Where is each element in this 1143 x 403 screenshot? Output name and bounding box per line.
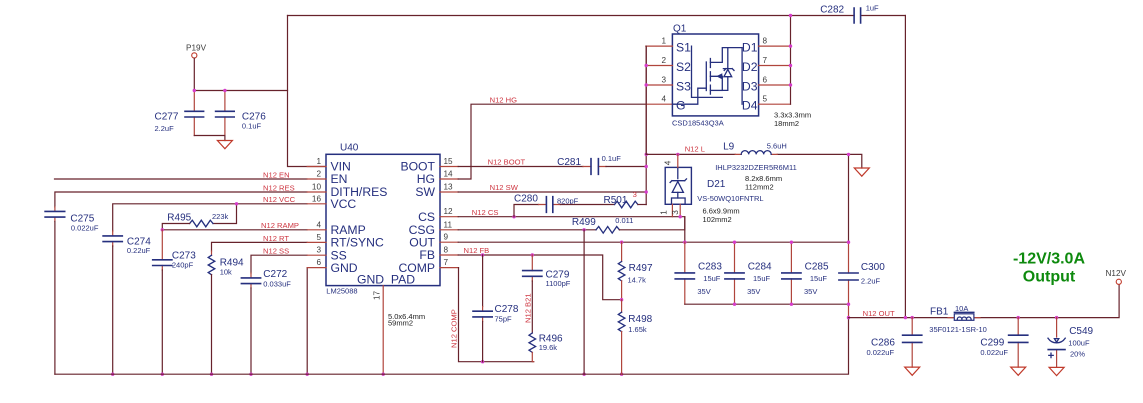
junction N12_L D21 — [676, 153, 679, 156]
svg-text:0.011: 0.011 — [615, 216, 633, 225]
Q1 pin 3 S3 — [646, 76, 691, 94]
svg-text:R498: R498 — [628, 314, 652, 325]
resistor R498 — [618, 300, 652, 375]
transistor Q1 body CSD18543Q3A — [672, 24, 759, 128]
capacitor C300 — [839, 154, 885, 317]
svg-text:C285: C285 — [805, 262, 829, 273]
svg-text:GND: GND — [331, 261, 358, 275]
svg-text:0.033uF: 0.033uF — [263, 279, 291, 288]
svg-text:5: 5 — [316, 233, 321, 242]
junction D1 — [789, 44, 792, 47]
svg-text:U40: U40 — [340, 143, 359, 154]
capacitor C280 — [514, 194, 579, 217]
svg-text:D3: D3 — [742, 79, 758, 93]
label output text — [1013, 251, 1085, 286]
D21 size note — [703, 207, 740, 225]
svg-text:CSD18543Q3A: CSD18543Q3A — [672, 119, 724, 128]
junction caps bottom C285 — [790, 303, 793, 306]
svg-text:C286: C286 — [871, 338, 895, 349]
svg-text:D1: D1 — [742, 41, 758, 55]
svg-text:15: 15 — [444, 157, 454, 166]
svg-text:1100pF: 1100pF — [546, 279, 571, 288]
svg-text:8: 8 — [763, 37, 768, 46]
U40 pin 13 SW — [415, 183, 458, 200]
svg-text:S3: S3 — [676, 79, 691, 93]
capacitor C281 — [557, 154, 646, 174]
junction CS tap — [512, 215, 515, 218]
U40 pin 15 BOOT — [400, 157, 458, 174]
resistor R499 — [572, 216, 685, 233]
svg-text:C278: C278 — [495, 304, 519, 315]
svg-text:C281: C281 — [557, 157, 581, 168]
junction D3 — [789, 83, 792, 86]
op-amp U40 LM25088 controller body — [326, 143, 440, 296]
junction P19V row — [193, 89, 196, 92]
Q1 pin 7 D2 — [742, 56, 791, 74]
svg-text:20%: 20% — [1070, 350, 1085, 359]
svg-text:GND_PAD: GND_PAD — [357, 273, 415, 287]
svg-text:N12 CS: N12 CS — [472, 208, 499, 217]
svg-text:0.022uF: 0.022uF — [980, 348, 1008, 357]
svg-text:3: 3 — [633, 190, 637, 199]
junction D21 anode CS — [679, 215, 682, 218]
junction bottom rail taps — [111, 373, 623, 376]
U40 pin 7 COMP — [398, 258, 458, 275]
wire cap bottoms — [194, 136, 225, 141]
ground C286 — [905, 367, 920, 375]
svg-text:4: 4 — [661, 95, 666, 104]
wire N12_COMP path — [459, 268, 534, 362]
D21 pin 4 stub — [664, 154, 678, 167]
svg-text:N12 COMP: N12 COMP — [449, 309, 458, 348]
svg-text:223k: 223k — [212, 212, 229, 221]
wire N12_SS row — [251, 255, 307, 273]
junction drain bus top rail — [789, 14, 792, 17]
svg-text:N12 BOOT: N12 BOOT — [488, 158, 526, 167]
svg-text:3: 3 — [316, 246, 321, 255]
svg-text:G: G — [676, 99, 685, 113]
svg-text:D21: D21 — [707, 179, 726, 190]
svg-text:L9: L9 — [723, 141, 735, 152]
svg-text:C300: C300 — [861, 262, 885, 273]
svg-text:N12 B21: N12 B21 — [524, 293, 533, 323]
U40 pin 14 HG — [417, 170, 458, 187]
U40 pin 11 CSG — [409, 220, 459, 237]
svg-text:-12V/3.0A: -12V/3.0A — [1013, 251, 1085, 268]
svg-text:9: 9 — [444, 233, 449, 242]
svg-text:1.65k: 1.65k — [628, 325, 647, 334]
svg-text:N12 RAMP: N12 RAMP — [261, 221, 299, 230]
wire P19V stub — [193, 58, 195, 90]
svg-text:102mm2: 102mm2 — [703, 215, 732, 224]
svg-text:5.6uH: 5.6uH — [767, 142, 787, 151]
svg-text:N12V: N12V — [1106, 269, 1127, 278]
svg-text:S2: S2 — [676, 60, 691, 74]
U40 pin 16 VCC — [307, 194, 356, 211]
svg-text:15uF: 15uF — [753, 274, 771, 283]
capacitor C276 — [216, 91, 267, 136]
svg-text:5: 5 — [763, 95, 768, 104]
svg-text:1: 1 — [661, 37, 666, 46]
svg-text:IHLP3232DZER5R6M11: IHLP3232DZER5R6M11 — [715, 163, 797, 172]
svg-text:0.022uF: 0.022uF — [71, 224, 99, 233]
D21 pin 1 stub — [660, 204, 673, 216]
junction C284 top — [733, 241, 736, 244]
Q1 size note — [774, 111, 811, 129]
Q1 pin 8 D1 — [742, 37, 791, 55]
Q1 internal MOSFET symbol — [672, 46, 742, 104]
svg-text:N12 OUT: N12 OUT — [863, 309, 895, 318]
svg-text:7: 7 — [763, 56, 768, 65]
svg-text:VCC: VCC — [331, 197, 357, 211]
capacitor C283 — [675, 242, 722, 304]
svg-text:N12 SW: N12 SW — [490, 183, 519, 192]
svg-text:N12 EN: N12 EN — [263, 170, 290, 179]
svg-text:FB1: FB1 — [930, 306, 949, 317]
svg-text:0.22uF: 0.22uF — [127, 246, 151, 255]
svg-text:35V: 35V — [747, 287, 760, 296]
svg-text:2: 2 — [661, 56, 666, 65]
svg-text:8: 8 — [444, 246, 449, 255]
node P19V — [186, 44, 207, 59]
inductor L9 — [723, 141, 787, 154]
U40 pin 1 VIN — [307, 157, 351, 174]
wire N12_RAMP row — [162, 229, 307, 231]
svg-text:14: 14 — [444, 170, 454, 179]
resistor R501 — [561, 190, 647, 208]
svg-text:D4: D4 — [742, 99, 758, 113]
wire bottom rail N12_OUT — [55, 318, 849, 375]
Q1 pin 1 S1 — [646, 37, 691, 55]
resistor R495 — [162, 204, 236, 230]
wire N12_OUT row — [849, 285, 1120, 318]
capacitor C285 — [782, 242, 829, 304]
wire N12_EN row — [55, 178, 308, 180]
svg-text:N12 FB: N12 FB — [464, 246, 490, 255]
svg-text:14.7k: 14.7k — [628, 275, 647, 284]
svg-text:Q1: Q1 — [673, 24, 687, 35]
svg-text:C272: C272 — [263, 269, 287, 280]
wire SW bus — [645, 46, 647, 204]
junction N12_L riser — [847, 153, 850, 156]
junction SW bus BOOT — [645, 165, 648, 168]
svg-text:R501: R501 — [604, 195, 628, 206]
U40 pin 8 FB — [419, 246, 458, 263]
svg-text:N12 L: N12 L — [685, 144, 705, 153]
svg-text:2.2uF: 2.2uF — [155, 124, 175, 133]
svg-text:N12 VCC: N12 VCC — [263, 195, 296, 204]
capacitor C274 — [103, 231, 151, 374]
U40 pin 12 CS — [418, 207, 458, 224]
capacitor C286 — [867, 318, 922, 368]
junction C276 top — [223, 89, 226, 92]
svg-text:10k: 10k — [220, 267, 232, 276]
D21 pin 3 stub — [671, 204, 680, 216]
svg-text:18mm2: 18mm2 — [774, 119, 799, 128]
U40 size note — [388, 312, 425, 328]
capacitor C273 — [153, 230, 197, 374]
junction FB C278 — [481, 253, 484, 256]
svg-text:LM25088: LM25088 — [326, 287, 357, 296]
svg-text:3: 3 — [671, 210, 680, 215]
junction N12_OUT start — [847, 316, 850, 319]
junction CSG riser to rail — [582, 228, 585, 231]
junction SW bus SW row — [645, 190, 648, 193]
svg-text:0.1uF: 0.1uF — [242, 122, 262, 131]
svg-text:2: 2 — [316, 170, 321, 179]
svg-text:6: 6 — [316, 258, 321, 267]
Q1 pin 2 S2 — [646, 56, 691, 74]
svg-text:10: 10 — [312, 183, 322, 192]
svg-text:N12 RT: N12 RT — [263, 234, 289, 243]
junction C300 top rail — [847, 241, 850, 244]
wire Q1 drain bus right — [790, 16, 792, 105]
svg-text:1: 1 — [316, 157, 321, 166]
svg-text:1: 1 — [660, 210, 669, 215]
svg-text:C284: C284 — [748, 262, 772, 273]
svg-text:4: 4 — [316, 220, 321, 229]
svg-text:S1: S1 — [676, 41, 691, 55]
junction RAMP tap — [161, 228, 164, 231]
junction OUT row CS column — [683, 241, 686, 244]
svg-text:15uF: 15uF — [703, 274, 721, 283]
wire N12_RES row — [55, 192, 307, 207]
junction FB divider tap — [620, 298, 623, 301]
svg-text:C283: C283 — [698, 262, 722, 273]
svg-text:112mm2: 112mm2 — [745, 183, 774, 192]
node N12V terminal — [1106, 269, 1127, 284]
Q1 pin 4 G — [646, 95, 686, 113]
svg-text:100uF: 100uF — [1068, 339, 1090, 348]
ground C549 — [1049, 367, 1064, 375]
wire N12_RT row — [212, 242, 308, 251]
svg-text:13: 13 — [444, 183, 454, 192]
svg-text:11: 11 — [444, 220, 453, 229]
svg-text:6: 6 — [763, 76, 768, 85]
svg-text:1uF: 1uF — [866, 3, 879, 12]
svg-text:P19V: P19V — [186, 44, 207, 53]
junction D2 — [789, 64, 792, 67]
ground input caps — [217, 141, 232, 149]
wire GND pin column — [306, 268, 308, 375]
svg-text:D2: D2 — [742, 60, 758, 74]
wire N12_VCC row — [113, 204, 307, 231]
svg-text:C549: C549 — [1069, 326, 1093, 337]
svg-text:12: 12 — [444, 207, 454, 216]
svg-text:C299: C299 — [980, 338, 1004, 349]
svg-text:C280: C280 — [514, 194, 538, 205]
junction caps bottom C284 — [733, 303, 736, 306]
svg-text:19.6k: 19.6k — [539, 343, 558, 352]
Q1 pin 6 D3 — [742, 76, 791, 94]
capacitor C549 polarized — [1048, 318, 1094, 368]
svg-text:240pF: 240pF — [172, 261, 194, 270]
svg-text:0.1uF: 0.1uF — [602, 154, 622, 163]
wire top rail — [288, 15, 906, 17]
junction N12_OUT C299 — [1017, 316, 1020, 319]
svg-text:3: 3 — [661, 76, 666, 85]
capacitor C278 — [473, 255, 519, 362]
ferrite bead FB1 — [929, 304, 987, 334]
svg-text:EN: EN — [331, 172, 348, 186]
junction COMP loop C278 — [481, 360, 484, 363]
capacitor C284 — [725, 242, 772, 304]
capacitor C277 — [155, 91, 204, 136]
svg-text:59mm2: 59mm2 — [388, 318, 413, 327]
diode D21 VS-50WQ10FNTRL — [665, 167, 763, 204]
junction R495 top — [235, 202, 238, 205]
svg-text:C282: C282 — [820, 5, 844, 16]
junction S2 — [645, 64, 648, 67]
capacitor C275 — [45, 207, 99, 374]
svg-text:16: 16 — [312, 194, 322, 203]
ground inductor right — [854, 168, 869, 176]
svg-text:SW: SW — [415, 185, 435, 199]
junction N12_OUT C286 — [911, 316, 914, 319]
svg-text:VS-50WQ10FNTRL: VS-50WQ10FNTRL — [697, 194, 763, 203]
svg-text:7: 7 — [444, 258, 449, 267]
wire C282 riser to N12_OUT — [904, 16, 906, 318]
svg-text:35V: 35V — [804, 287, 817, 296]
svg-text:10A: 10A — [955, 304, 968, 313]
svg-text:Output: Output — [1023, 269, 1076, 286]
svg-text:17: 17 — [373, 290, 382, 300]
wire CSG sense riser — [583, 230, 585, 374]
Q1 pin 5 D4 — [742, 95, 791, 113]
svg-text:HG: HG — [417, 172, 435, 186]
svg-text:R499: R499 — [572, 217, 596, 228]
U40 pin 9 OUT — [409, 233, 458, 250]
wire N12_L rail — [646, 154, 862, 168]
capacitor C272 — [241, 269, 291, 374]
capacitor C279 — [523, 255, 571, 288]
wire N12_OUT/GND OUT row — [458, 241, 848, 243]
U40 pin 5 RT/SYNC — [307, 233, 384, 250]
svg-text:35F0121-1SR-10: 35F0121-1SR-10 — [929, 325, 987, 334]
svg-text:R495: R495 — [167, 213, 191, 224]
resistor R497 — [618, 242, 653, 300]
svg-text:15uF: 15uF — [810, 274, 828, 283]
wire N12_HG — [458, 104, 646, 179]
U40 pin 6 GND — [307, 258, 358, 275]
svg-text:C277: C277 — [155, 112, 179, 123]
svg-text:4: 4 — [664, 160, 673, 165]
wire P19V row to riser — [194, 90, 287, 92]
svg-text:2.2uF: 2.2uF — [861, 276, 881, 285]
wire Q1 source bus left — [645, 46, 647, 154]
svg-text:R497: R497 — [629, 263, 653, 274]
junction SW bus N12_L — [645, 153, 648, 156]
junction FB C279 — [531, 253, 534, 256]
U40 pin 10 DITH/RES — [307, 183, 387, 200]
junction S3 — [645, 83, 648, 86]
junction N12_OUT C549 — [1055, 316, 1058, 319]
resistor R496 — [529, 333, 563, 362]
ground C299 — [1011, 367, 1026, 375]
junction OUT row R497 — [620, 241, 623, 244]
junction C285 top — [790, 241, 793, 244]
capacitor C299 — [980, 318, 1027, 368]
wire output caps bottom rail — [685, 303, 849, 305]
wire N12_FB row — [458, 255, 621, 300]
U40 pin 17 GND_PAD stub — [373, 286, 384, 375]
svg-text:CS: CS — [418, 210, 435, 224]
junction N12_OUT C282 riser — [904, 316, 907, 319]
wire N12_SW row — [458, 191, 646, 193]
wire N12_CSG row R499 — [458, 229, 596, 231]
wire N12_CS row — [458, 217, 685, 243]
resistor R494 — [208, 251, 244, 374]
wire C279 to R496 — [531, 281, 533, 333]
svg-text:N12 SS: N12 SS — [263, 247, 289, 256]
U40 pin 2 EN — [307, 170, 347, 187]
wire N12_BOOT row — [458, 166, 583, 168]
wire riser P19V to VIN — [288, 16, 327, 167]
capacitor C282 — [820, 3, 879, 23]
L9 size note — [745, 174, 782, 192]
svg-text:75pF: 75pF — [495, 315, 513, 324]
svg-text:35V: 35V — [697, 287, 710, 296]
svg-text:N12 HG: N12 HG — [490, 96, 518, 105]
U40 pin 3 SS — [307, 246, 347, 263]
svg-text:0.022uF: 0.022uF — [867, 348, 895, 357]
junction caps bottom C300 — [847, 303, 850, 306]
svg-text:N12 RES: N12 RES — [263, 183, 295, 192]
U40 pin 4 RAMP — [307, 220, 366, 237]
